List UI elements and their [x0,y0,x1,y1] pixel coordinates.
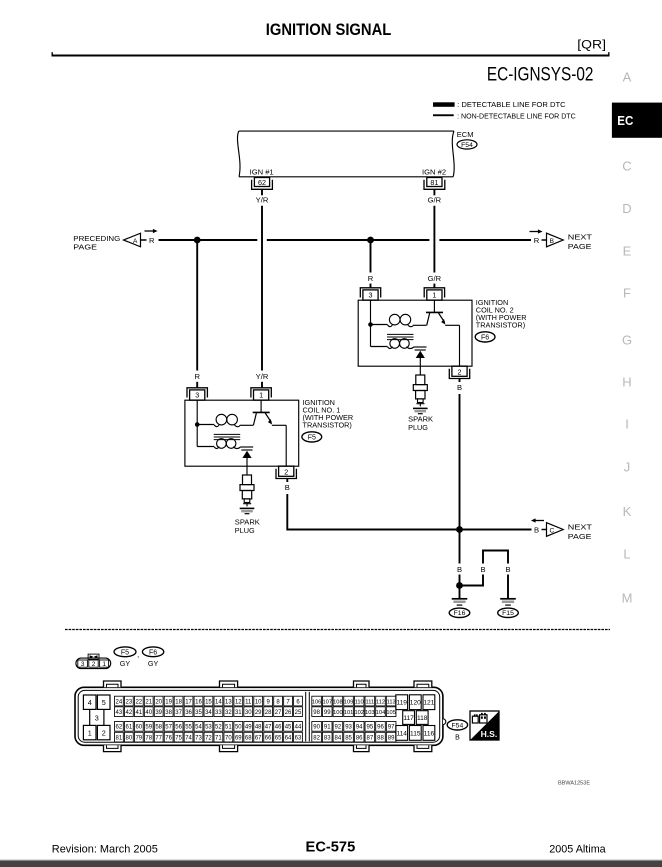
coil F5 internal wires [196,400,198,446]
svg-text:37: 37 [175,710,182,716]
svg-text:43: 43 [116,710,123,716]
connector triangle B (next page) [547,233,564,247]
wire Y/R stub to coil 1 pin 1 [261,382,263,388]
svg-text:F5: F5 [121,649,129,656]
svg-text:13: 13 [225,699,232,705]
svg-text:,: , [137,650,139,659]
ECM connector oval F54 [457,140,477,149]
connector tab [220,681,238,687]
svg-text:R: R [534,236,540,245]
connector tab bottom [354,745,370,751]
wire G/R stub to coil 2 pin 1 [433,284,435,288]
ignition coil F5 box [185,400,299,466]
svg-text:91: 91 [324,725,331,731]
svg-text:44: 44 [295,725,302,731]
svg-text:3: 3 [95,713,99,722]
svg-text:G/R: G/R [428,274,442,283]
coil F5 connector oval [302,432,322,442]
svg-text:36: 36 [185,710,192,716]
svg-text:2: 2 [284,468,288,477]
ground F16 [452,598,468,600]
svg-text:B: B [457,565,462,574]
coil F5 internal node [195,422,200,427]
svg-text:IGN #1: IGN #1 [250,167,274,176]
wire bridge to ground F15 [460,551,509,599]
wire R vertical to coil 1 [196,240,198,371]
svg-text:28: 28 [265,710,272,716]
ECM terminal pin 81 [427,178,442,187]
svg-text:50: 50 [235,725,242,731]
svg-text:PAGE: PAGE [73,242,97,251]
svg-text:F: F [623,286,631,301]
svg-text:B: B [285,483,290,492]
svg-text:6: 6 [296,699,300,705]
svg-text:B: B [480,565,485,574]
arrow left above B [535,520,544,522]
svg-text:41: 41 [135,710,142,716]
svg-text:92: 92 [335,725,342,731]
svg-text:PLUG: PLUG [408,423,428,432]
connector left pin block [83,695,96,709]
connector tab [414,681,432,687]
svg-text:86: 86 [356,736,363,742]
coil F5 core [214,433,241,435]
svg-text:94: 94 [356,725,363,731]
svg-text:H: H [622,375,631,390]
svg-text:81: 81 [116,736,123,742]
svg-text:84: 84 [335,736,342,742]
svg-text:20: 20 [155,699,162,705]
svg-text:L: L [623,547,630,562]
wire R vertical to coil 2 [370,240,372,273]
svg-text:31: 31 [235,710,242,716]
H.S. connector glyph [472,716,478,723]
svg-text:72: 72 [205,736,212,742]
svg-text:25: 25 [295,710,302,716]
wire bus segment 3 [439,239,531,241]
svg-text:1: 1 [88,728,92,737]
svg-text:Revision: March 2005: Revision: March 2005 [52,843,158,855]
svg-text:89: 89 [388,736,395,742]
svg-text:15: 15 [205,699,212,705]
stub to triangle C [542,529,547,531]
svg-text:100: 100 [333,710,343,716]
svg-text:78: 78 [145,736,152,742]
svg-text:99: 99 [324,710,331,716]
svg-text:53: 53 [205,725,212,731]
connector grid section 1 [115,696,124,706]
wire Y/R vertical [261,206,263,371]
svg-text:59: 59 [145,725,152,731]
svg-text:29: 29 [255,710,262,716]
svg-text:B: B [505,565,510,574]
svg-text:90: 90 [313,725,320,731]
svg-text:101: 101 [344,710,354,716]
svg-text:11: 11 [245,699,252,705]
ignition coil F6 box [358,300,472,366]
svg-text:85: 85 [345,736,352,742]
sidebar EC tab [612,103,662,138]
svg-text:[QR]: [QR] [577,39,606,51]
svg-text:IGNITION SIGNAL: IGNITION SIGNAL [266,21,392,39]
svg-text:16: 16 [195,699,202,705]
svg-text:ECM: ECM [457,130,474,139]
svg-text:107: 107 [323,699,333,705]
svg-text:R: R [368,274,374,283]
svg-text:5: 5 [102,698,106,707]
svg-text:76: 76 [165,736,172,742]
svg-text:106: 106 [312,699,322,705]
svg-text:F54: F54 [461,142,473,149]
svg-text:K: K [623,504,632,519]
svg-text:: DETECTABLE LINE FOR DTC: : DETECTABLE LINE FOR DTC [457,100,565,109]
svg-text:H.S.: H.S. [481,730,498,739]
svg-text:22: 22 [135,699,142,705]
spark plug wire [246,466,248,475]
svg-text:116: 116 [424,730,435,737]
header rule [52,55,610,57]
H.S. icon [470,711,499,740]
legend non-detectable line [433,114,454,116]
svg-text:8: 8 [276,699,280,705]
svg-text:R: R [194,372,200,381]
svg-text:70: 70 [225,736,232,742]
svg-text:27: 27 [275,710,282,716]
connector tab [354,681,370,687]
svg-text:57: 57 [165,725,172,731]
svg-text:F6: F6 [481,334,489,341]
svg-text:EC: EC [617,114,633,128]
svg-text:12: 12 [235,699,242,705]
svg-text:J: J [624,460,631,475]
svg-text:F6: F6 [149,649,157,656]
wire G/R vertical [433,206,435,273]
svg-text:1: 1 [259,390,263,399]
svg-text:52: 52 [215,725,222,731]
svg-text:75: 75 [175,736,182,742]
spark plug [243,475,252,485]
svg-text:32: 32 [225,710,232,716]
connector center divider [305,692,307,742]
svg-text:EC-575: EC-575 [306,839,356,855]
svg-text:67: 67 [255,736,262,742]
svg-text:42: 42 [126,710,133,716]
svg-text:51: 51 [225,725,232,731]
svg-text:64: 64 [285,736,292,742]
svg-text:B: B [550,238,554,245]
svg-text:73: 73 [195,736,202,742]
svg-text:114: 114 [396,730,407,737]
svg-text:E: E [623,244,632,259]
svg-text:M: M [622,591,633,606]
junction node B bus [456,526,463,533]
wire bus segment 2 [267,239,430,241]
svg-text:TRANSISTOR): TRANSISTOR) [476,321,525,330]
svg-text:47: 47 [265,725,272,731]
small 3-pin coil connector [76,658,111,669]
svg-text:GY: GY [120,659,131,668]
svg-text:26: 26 [285,710,292,716]
svg-text:121: 121 [423,700,434,707]
svg-text:66: 66 [265,736,272,742]
ECM terminal pin 62 [254,178,269,187]
svg-text:119: 119 [396,700,407,707]
svg-text:18: 18 [175,699,182,705]
svg-text:9: 9 [266,699,270,705]
connector tab [104,681,122,687]
coil F6 terminal pin 3 [363,290,378,300]
svg-text:88: 88 [377,736,384,742]
svg-text:17: 17 [185,699,192,705]
svg-text:C: C [622,159,631,174]
svg-text:4: 4 [88,698,92,707]
svg-text:115: 115 [410,730,421,737]
junction node at R/coil1 [194,237,201,244]
ground F15 [500,598,516,600]
svg-text:R: R [149,236,155,245]
spark plug ground [413,407,428,409]
svg-text:B: B [455,735,460,742]
svg-text:GY: GY [148,659,159,668]
svg-text:TRANSISTOR): TRANSISTOR) [303,421,352,430]
svg-text:3: 3 [81,661,85,668]
coil F5 secondary winding [217,439,227,449]
svg-text:83: 83 [324,736,331,742]
svg-text:120: 120 [410,700,421,707]
svg-text:69: 69 [235,736,242,742]
coil F6 terminal pin 1 [427,290,442,300]
svg-text:65: 65 [275,736,282,742]
svg-text:38: 38 [165,710,172,716]
svg-text:2: 2 [102,728,106,737]
svg-text:NEXT: NEXT [568,232,593,241]
coil F6 primary winding [389,314,400,325]
svg-text:24: 24 [116,699,123,705]
svg-text:I: I [625,417,629,432]
ECM box U1 [239,130,454,132]
connector grid section 2 [312,696,322,706]
svg-text:NEXT: NEXT [568,522,593,531]
connector right pin block [396,695,408,710]
connector right notch [443,719,446,725]
coil F6 secondary winding [390,339,400,349]
svg-text:74: 74 [185,736,192,742]
svg-text:3: 3 [195,390,199,399]
svg-text:G/R: G/R [428,195,442,204]
coil F5 power transistor [260,400,262,412]
footer bar [0,860,662,861]
svg-text:14: 14 [215,699,222,705]
svg-text:118: 118 [417,715,428,722]
svg-text:104: 104 [376,710,386,716]
svg-text:PLUG: PLUG [235,526,255,535]
svg-text:F5: F5 [308,434,316,441]
connector tab bottom [414,745,432,751]
connector tab bottom [220,745,238,751]
arrow right above R (next page) [530,231,539,233]
svg-text:33: 33 [215,710,222,716]
svg-text:46: 46 [275,725,282,731]
coil F5 primary winding [216,414,227,425]
svg-text:A: A [133,238,138,245]
svg-text:40: 40 [145,710,152,716]
wire B stub coil 2 pin 2 [459,379,461,382]
svg-text:F15: F15 [502,610,514,617]
svg-text:EC-IGNSYS-02: EC-IGNSYS-02 [487,63,594,85]
ground oval F16 [449,608,470,617]
svg-text:105: 105 [386,710,396,716]
connector triangle A (preceding page) [124,233,141,247]
svg-text:62: 62 [258,178,266,187]
svg-text:F16: F16 [454,610,466,617]
spark plug ground [240,507,255,509]
svg-text:39: 39 [155,710,162,716]
svg-text:56: 56 [175,725,182,731]
svg-text:68: 68 [245,736,252,742]
spark plug wire [419,366,421,375]
svg-text:G: G [622,333,632,348]
svg-text:77: 77 [155,736,162,742]
svg-text:54: 54 [195,725,202,731]
svg-text:Y/R: Y/R [256,195,269,204]
svg-text:BBWA1253E: BBWA1253E [558,781,591,787]
svg-text:21: 21 [145,699,152,705]
svg-text:81: 81 [430,178,438,187]
wire B down from junction [459,530,461,564]
svg-text:PAGE: PAGE [568,242,592,251]
svg-text:62: 62 [116,725,123,731]
spark plug [416,375,425,385]
svg-text:30: 30 [245,710,252,716]
svg-text:B: B [457,383,462,392]
connector triangle C (next page) [547,523,564,537]
svg-text:48: 48 [255,725,262,731]
section divider dashed [65,629,610,631]
svg-text:23: 23 [126,699,133,705]
wire B to next page [460,529,532,531]
svg-text:82: 82 [313,736,320,742]
svg-text:109: 109 [344,699,354,705]
coil F6 connector oval [475,332,495,342]
svg-text:112: 112 [376,699,385,705]
svg-text:97: 97 [388,725,395,731]
svg-text:93: 93 [345,725,352,731]
svg-text:2: 2 [458,368,462,377]
wire B stub coil 1 pin 2 [286,479,288,482]
svg-text:111: 111 [366,699,375,705]
svg-text:34: 34 [205,710,212,716]
svg-text:IGN #2: IGN #2 [422,167,446,176]
svg-text:95: 95 [367,725,374,731]
svg-text:D: D [622,201,631,216]
svg-text:19: 19 [165,699,172,705]
svg-text:A: A [623,70,632,85]
svg-text:103: 103 [365,710,375,716]
ECM connector F54 outline [75,687,443,745]
coil F6 core [387,333,414,335]
wire B vertical from coil 2 [459,394,461,530]
svg-text:60: 60 [135,725,142,731]
svg-text:108: 108 [333,699,343,705]
svg-text:117: 117 [403,715,414,722]
svg-text:3: 3 [369,290,373,299]
wire bus segment 1 [159,239,258,241]
svg-text:49: 49 [245,725,252,731]
svg-text:1: 1 [102,661,106,668]
coil F6 diode [415,349,426,351]
ground oval F15 [498,608,519,617]
stub to triangle B [542,239,547,241]
svg-text:58: 58 [155,725,162,731]
svg-text:F54: F54 [452,722,464,729]
svg-text:45: 45 [285,725,292,731]
svg-text:61: 61 [126,725,133,731]
svg-text:35: 35 [195,710,202,716]
svg-text:71: 71 [215,736,222,742]
svg-text:7: 7 [286,699,290,705]
svg-text:2: 2 [92,661,96,668]
coil F6 terminal pin 2 [452,366,467,376]
coil F5 terminal pin 3 [190,390,205,400]
svg-text:Y/R: Y/R [256,372,269,381]
svg-text:80: 80 [126,736,133,742]
svg-text:C: C [549,527,554,534]
connector oval F54 (bottom) [447,720,467,730]
svg-text:113: 113 [387,699,396,705]
wire to ground F16 [459,586,461,599]
legend detectable line [433,102,455,107]
svg-text:PAGE: PAGE [568,532,592,541]
connector oval F5 [114,647,136,657]
svg-text:63: 63 [295,736,302,742]
coil F5 diode [241,449,252,451]
coil F6 internal wires [370,300,372,346]
arrow right above R [145,230,154,232]
svg-text:96: 96 [377,725,384,731]
junction node at R/coil2 [367,237,374,244]
connector tab bottom [104,745,122,751]
svg-text:: NON-DETECTABLE LINE FOR DTC: : NON-DETECTABLE LINE FOR DTC [457,111,576,120]
svg-text:79: 79 [135,736,142,742]
svg-text:2005 Altima: 2005 Altima [549,843,605,855]
junction node at grounds [456,582,463,589]
svg-text:102: 102 [354,710,364,716]
wire Y/R stub from ECM pin 62 [261,190,263,196]
svg-text:98: 98 [313,710,320,716]
wire G/R stub from ECM pin 81 [433,190,435,196]
svg-text:87: 87 [367,736,374,742]
svg-text:110: 110 [355,699,364,705]
coil F6 internal node [368,322,373,327]
svg-text:55: 55 [185,725,192,731]
svg-text:1: 1 [432,290,436,299]
wire B from coil 1 down and right [287,494,459,530]
svg-text:10: 10 [255,699,262,705]
connector oval F6 [142,647,163,657]
coil F5 terminal pin 2 [279,466,294,476]
coil F5 terminal pin 1 [254,390,269,400]
coil F6 power transistor [433,300,435,312]
svg-text:B: B [534,526,539,535]
stub from triangle A [141,239,147,241]
